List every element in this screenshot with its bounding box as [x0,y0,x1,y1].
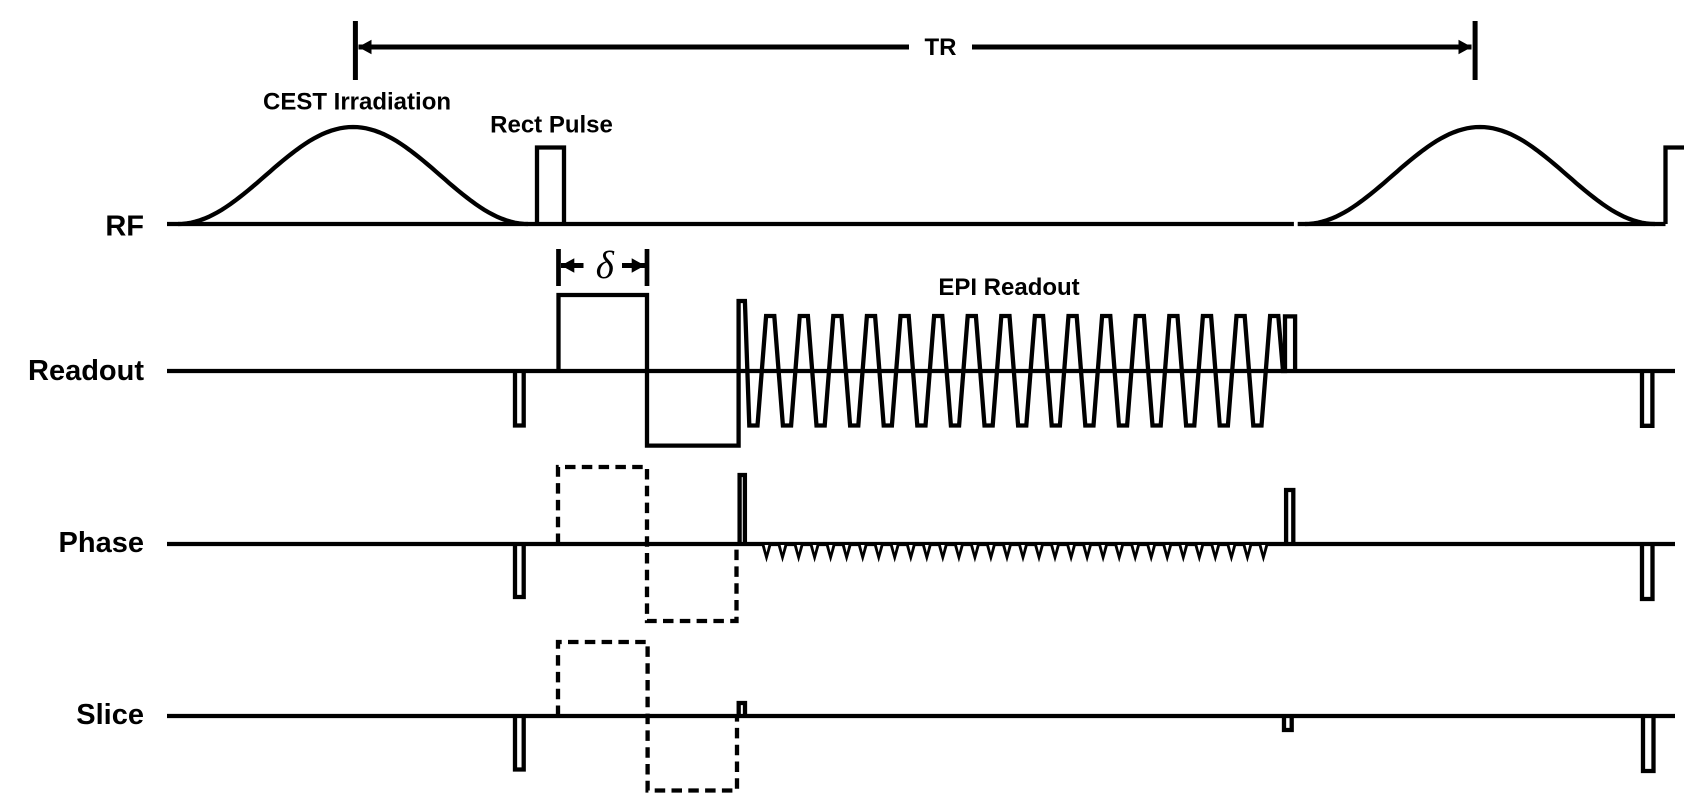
svg-text:EPI Readout: EPI Readout [938,274,1079,301]
svg-text:RF: RF [105,211,144,243]
svg-text:TR: TR [925,34,957,61]
svg-text:CEST Irradiation: CEST Irradiation [263,89,451,116]
svg-text:Phase: Phase [59,527,144,559]
svg-text:δ: δ [596,244,615,287]
svg-text:Readout: Readout [28,355,144,387]
svg-text:Slice: Slice [76,699,144,731]
svg-text:Rect Pulse: Rect Pulse [490,112,613,139]
